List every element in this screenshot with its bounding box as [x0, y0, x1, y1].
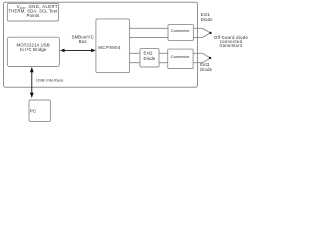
Ext2 diode label — [144, 51, 156, 61]
connector J2 (lower) — [168, 49, 193, 68]
evaluation board outer box — [4, 2, 198, 87]
Ext3 off-board diode symbol — [193, 53, 210, 62]
SMBus bus label — [72, 35, 94, 45]
USB interface arrow — [30, 67, 34, 98]
Ext3 diode node label — [200, 62, 212, 72]
off-board transistors note — [214, 35, 249, 48]
MCP2221A USB bridge box — [7, 37, 59, 66]
svg-text:Connector: Connector — [171, 28, 190, 33]
wire MCP9904 to connector J1 (DM1) — [130, 36, 169, 38]
svg-text:MCP9904: MCP9904 — [98, 45, 121, 50]
Ext3 diode junction dot — [209, 57, 211, 59]
Ext1 diode junction dot — [209, 32, 211, 34]
wire MCP9904 to Ext2 diode (DP2) — [130, 52, 141, 54]
svg-text:Diode: Diode — [200, 67, 212, 72]
Ext2 diode box — [140, 49, 159, 67]
svg-text:Connector: Connector — [171, 54, 190, 59]
Ext1 off-board diode symbol — [193, 28, 210, 37]
MCP9904 box — [96, 19, 130, 73]
svg-text:to I2C Bridge: to I2C Bridge — [20, 47, 47, 52]
svg-text:Diode: Diode — [201, 17, 213, 22]
svg-text:transistors: transistors — [219, 43, 242, 48]
test points label — [9, 4, 60, 18]
wire MCP9904 to Ext2 diode (DM2) — [130, 62, 141, 64]
connector J1 (upper) — [168, 25, 193, 41]
svg-text:Bus: Bus — [79, 39, 87, 44]
SMBus/I2C bus arrow — [60, 49, 96, 53]
Ext1 diode node label — [201, 12, 213, 22]
svg-text:USB Interface: USB Interface — [36, 77, 64, 82]
svg-text:PC: PC — [30, 109, 36, 114]
svg-text:Diode: Diode — [144, 56, 156, 61]
svg-text:Points: Points — [27, 13, 40, 18]
wire Ext2 diode to connector J2 (DP3) — [159, 52, 168, 54]
MCP2221A label — [17, 43, 50, 53]
wire MCP9904 to connector J1 (DP1) — [130, 27, 169, 29]
PC box — [29, 100, 50, 121]
test points box — [7, 3, 58, 21]
wire Ext2 diode to connector J2 (DM3) — [159, 62, 168, 64]
